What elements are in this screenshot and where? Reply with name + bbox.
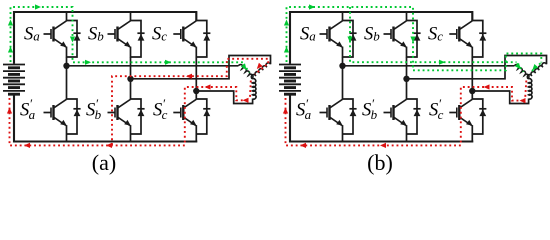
inductor winding phase c (b) [528,79,532,99]
diode D'_a (b) [343,99,357,134]
diode D'_b (a) [131,99,145,134]
wire leg b mid (b) [406,57,408,79]
transistor S'_c (a) [173,91,196,142]
current path green main (a) [11,7,244,62]
wire phase c (b) [472,91,528,104]
red arrow left bottom 1 (b) [300,143,306,148]
wire bottom rail (a) [14,95,197,141]
green arrow into load right (b) [532,64,538,70]
current path red battery return (b) [286,87,524,145]
current path green into winding a (a) [244,64,250,72]
battery B (b) [279,65,301,95]
wire phase a (a) [67,65,239,67]
wire phase b (a) [131,56,271,79]
red arrow left phase c (a) [205,84,211,89]
green arrow up 2 (b) [284,47,289,53]
node phase c junction (b) [469,88,475,94]
wire phase c (a) [196,91,252,104]
node phase c junction (a) [193,88,199,94]
green arrow down leg b (b) [410,37,415,43]
transistor S_b (b) [384,12,407,58]
red arrow left phase c (b) [484,84,490,89]
wire top rail (a) [14,12,196,64]
diode D'_b (b) [407,99,421,134]
transistor S'_b (a) [108,79,131,142]
red arrow left jog (a) [243,98,249,103]
inductor winding phase b (a) [251,63,270,79]
red arrow left bottom 2 (b) [380,143,386,148]
wire phase a (b) [343,65,515,67]
transistor S_c (b) [449,12,472,58]
red arrow up battery (a) [7,108,12,114]
green arrow right phase a (b) [439,60,445,65]
green arrow down leg a (b) [347,37,352,43]
green arrow right top (a) [35,4,41,9]
green arrow into load left (b) [515,63,521,69]
wire leg c mid (b) [471,57,473,91]
transistor S'_b (b) [384,79,407,142]
inductor winding phase a (b) [515,65,529,79]
diode D_b (a) [131,21,145,58]
current path green into winding b (b) [531,63,541,72]
wire leg a mid (a) [66,57,68,66]
current path red battery return (a) [10,87,249,145]
diode D_c (a) [196,21,210,58]
wire leg c mid (a) [195,57,197,91]
transistor S_a (a) [44,12,67,58]
node phase a junction (b) [339,63,345,69]
green arrow down leg a (a) [70,37,75,43]
diode D_a (b) [343,21,357,58]
current path red winding c (a) [249,81,252,98]
red arrow left jog (b) [520,98,526,103]
current path red leg b return (a) [112,59,268,145]
green arrow right phase a 1 (a) [85,60,91,65]
red arrow into center (a) [257,63,263,69]
wire phase b (b) [407,56,547,79]
node phase a junction (a) [63,63,69,69]
wire bottom rail (b) [290,95,473,141]
diode D_b (b) [407,21,421,58]
transistor S'_a (b) [320,66,343,142]
transistor S'_c (b) [449,91,472,142]
node phase b junction (a) [127,76,133,82]
red arrow up battery (b) [283,108,288,114]
wire top rail (b) [290,12,472,64]
transistor S'_a (a) [44,66,67,142]
diode D_a (a) [67,21,81,58]
node phase b junction (b) [403,76,409,82]
diode D_c (b) [472,21,486,58]
transistor S_c (a) [173,12,196,58]
red arrow left bottom 2 (a) [106,143,112,148]
svg-text:(a): (a) [92,150,116,175]
diode D'_c (a) [196,99,210,134]
green arrow right top (b) [309,4,315,9]
transistor S_a (b) [320,12,343,58]
green arrow into load (a) [241,63,247,69]
current path red winding c (b) [525,81,526,99]
green arrow up 2 (a) [8,47,13,53]
wire leg b mid (a) [130,57,132,79]
diode D'_c (b) [472,99,486,134]
inductor winding phase b (b) [527,63,546,79]
green arrow right phase a 2 (a) [165,60,171,65]
green arrow up 1 (a) [8,20,13,26]
current path green into winding a (b) [517,64,524,72]
current path green leg a branch (b) [350,7,517,62]
svg-text:(b): (b) [367,150,393,175]
inductor winding phase c (a) [252,79,256,99]
battery B (a) [3,65,25,95]
diode D'_a (a) [67,99,81,134]
green arrow up 1 (b) [284,20,289,26]
wire leg a mid (b) [342,57,344,66]
inductor winding phase a (a) [239,65,254,79]
red arrow left phase b (a) [186,74,192,79]
current path red into winding b (a) [255,65,267,74]
transistor S_b (a) [108,12,131,58]
current path green main (b) [287,7,542,70]
red arrow left bottom 1 (a) [24,143,30,148]
